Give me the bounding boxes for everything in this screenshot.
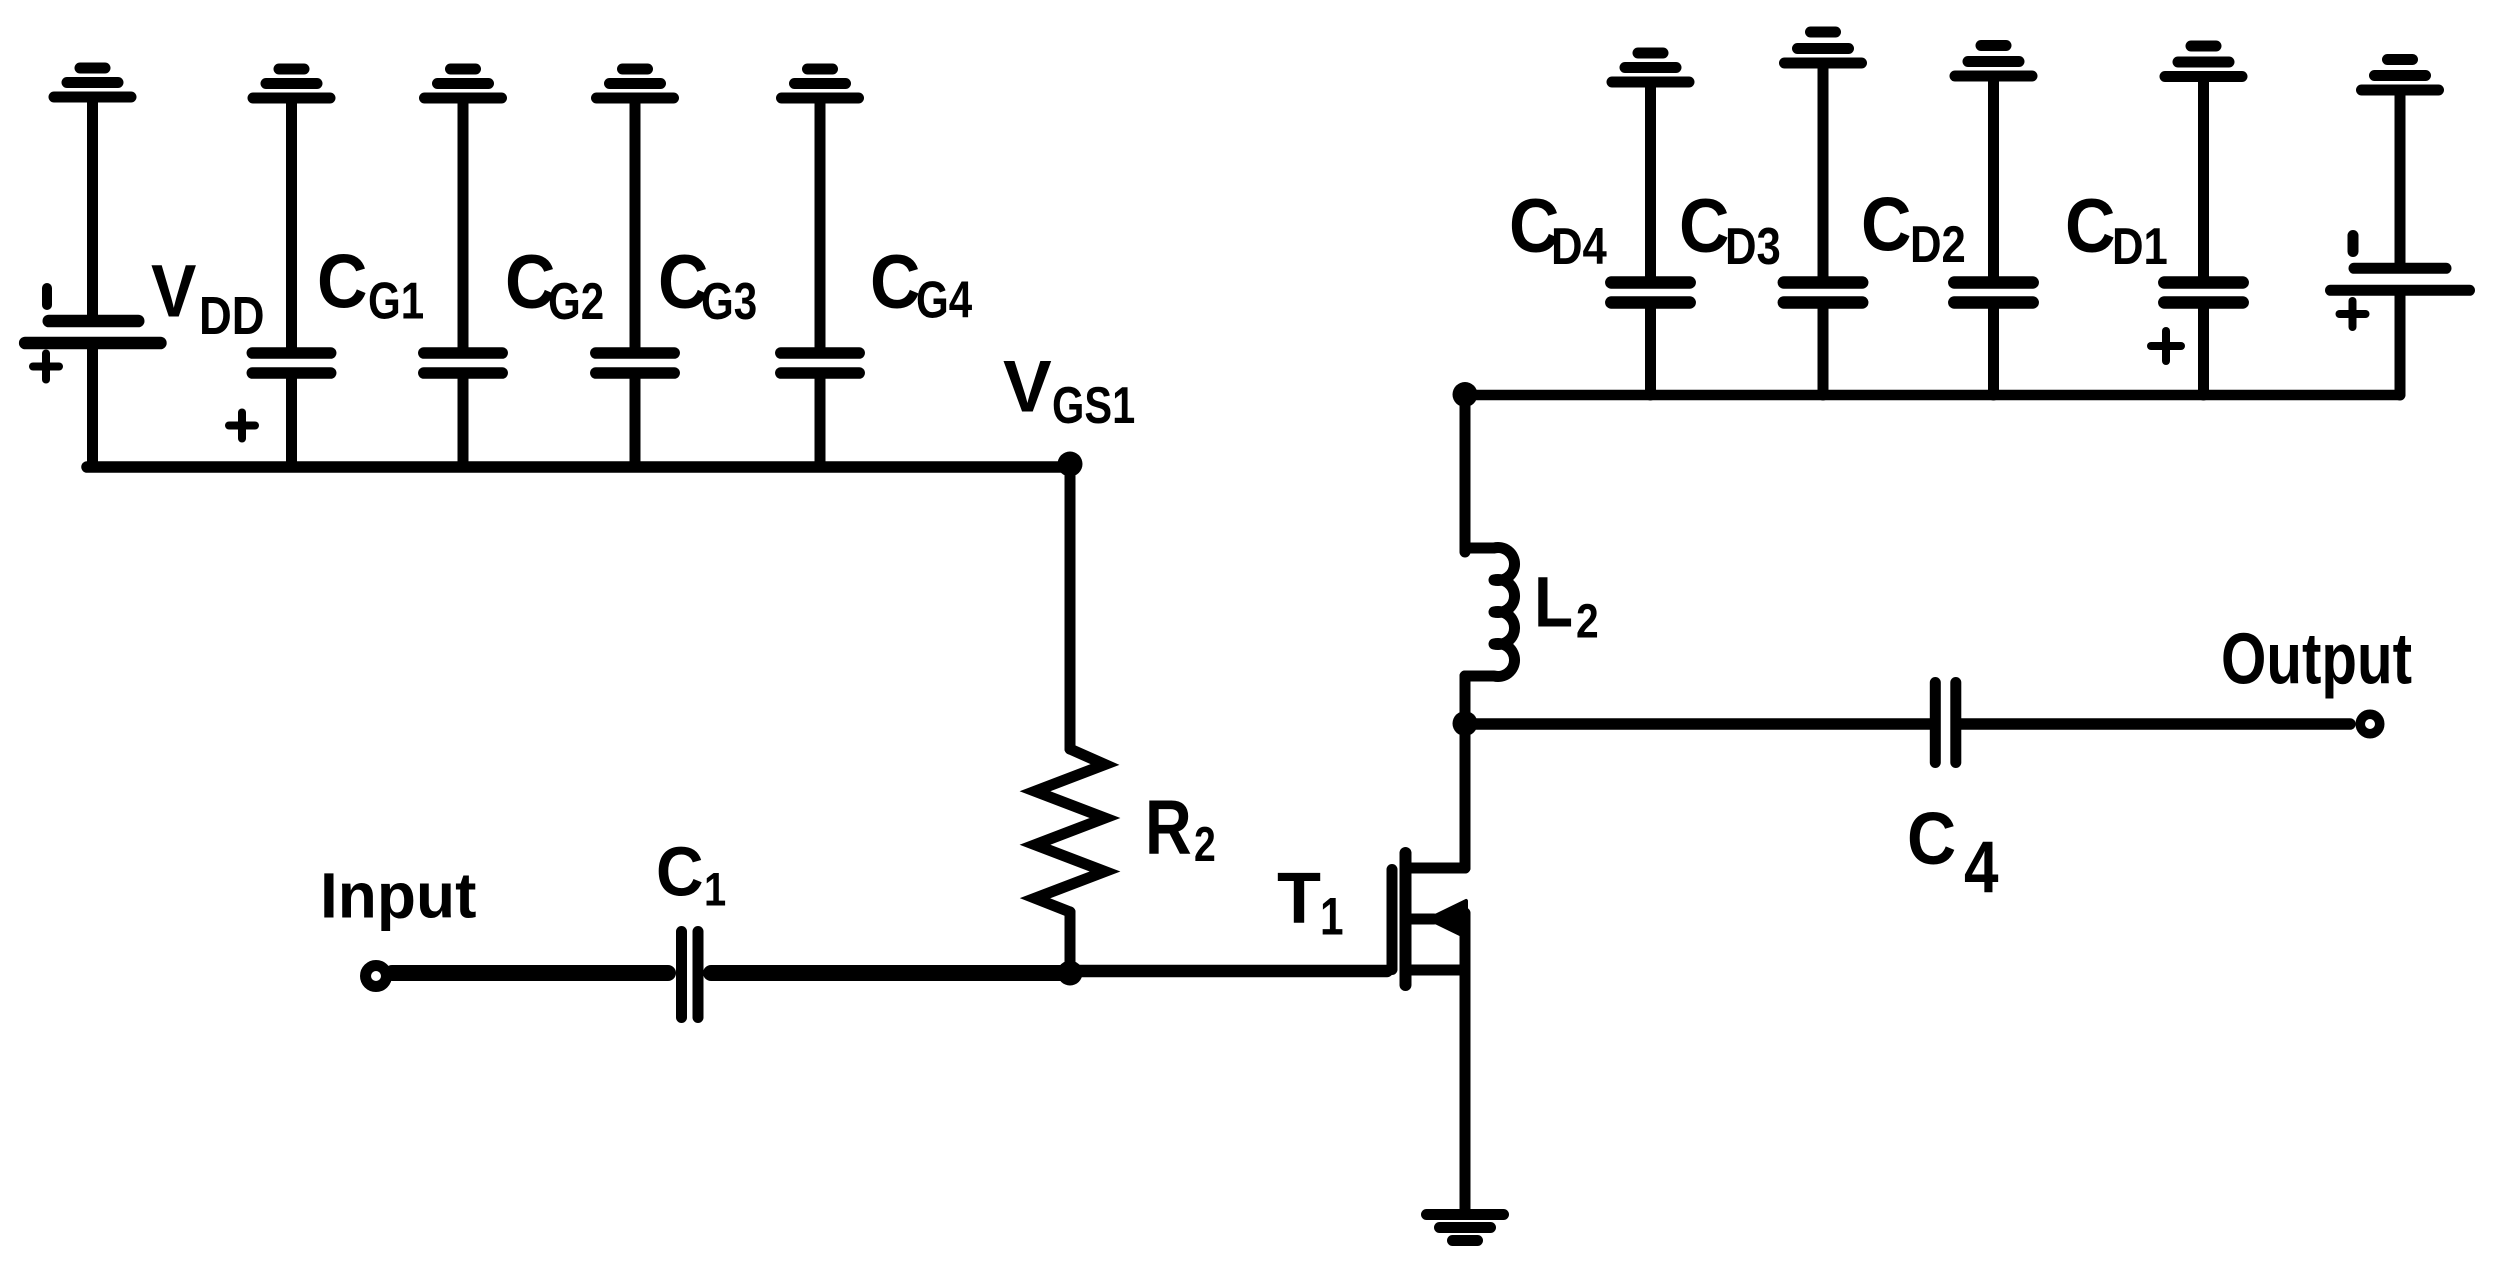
label CD3: [1679, 184, 1781, 276]
wire: node VGS1 down to R2: [1065, 466, 1076, 749]
label R2: [1145, 785, 1216, 872]
capacitor CD4: [1611, 85, 1689, 395]
capacitor C4: [1935, 683, 1956, 763]
drain bias rail: [1465, 390, 2400, 401]
svg-text:C: C: [1907, 798, 1956, 880]
label Input: [320, 860, 476, 932]
plus sign (right battery polarity): [2340, 301, 2366, 327]
svg-text:4: 4: [1964, 828, 1999, 909]
svg-text:D4: D4: [1551, 219, 1607, 276]
plus sign (CG1 polarity): [229, 413, 255, 439]
label C1: [656, 834, 726, 917]
wire: ground to right battery: [2395, 93, 2406, 263]
ground (above right battery): [2362, 60, 2439, 91]
label VGS1: [1003, 347, 1135, 435]
plus sign (VDD battery polarity): [33, 354, 59, 380]
ground (above CD3): [1785, 32, 1862, 63]
svg-text:G4: G4: [916, 271, 973, 329]
ground (above CG3): [597, 69, 674, 98]
label CG4: [870, 240, 973, 329]
svg-text:R: R: [1145, 785, 1192, 871]
ground (above VDD battery): [54, 68, 131, 97]
label CG3: [658, 240, 757, 331]
svg-text:C: C: [1679, 184, 1729, 268]
ground (above CD4): [1612, 53, 1689, 82]
resistor R2: [1035, 749, 1105, 912]
ground (above CG4): [782, 69, 859, 98]
svg-text:D3: D3: [1725, 219, 1781, 276]
wire: right battery to drain rail: [2395, 296, 2406, 395]
wire: L2 to drain node: [1460, 676, 1471, 724]
node (drain / output junction): [1453, 711, 1478, 736]
battery (right, drain supply): [2331, 236, 2470, 291]
capacitor CD1: [2164, 80, 2242, 395]
svg-text:G1: G1: [368, 272, 424, 330]
wire: C4 to Output terminal: [1961, 718, 2350, 730]
capacitor C1: [682, 932, 699, 1018]
svg-text:G3: G3: [701, 273, 757, 331]
svg-text:2: 2: [1576, 595, 1599, 648]
ground (T1 source): [1427, 1215, 1504, 1241]
wire: R2 to input line junction: [1065, 912, 1076, 973]
wire: VDD battery to gate bias rail: [87, 349, 98, 466]
svg-text:V: V: [1003, 347, 1052, 428]
svg-text:D2: D2: [1910, 217, 1966, 274]
ground (above CG2): [425, 69, 502, 98]
label T1: [1277, 859, 1344, 947]
label Output: [2221, 619, 2412, 699]
label CG2: [505, 240, 604, 331]
svg-text:Output: Output: [2221, 619, 2412, 699]
node (gate junction): [1058, 961, 1083, 986]
label CD4: [1509, 184, 1607, 276]
svg-text:C: C: [2065, 184, 2115, 268]
svg-text:C: C: [317, 240, 367, 324]
label VDD: [151, 251, 265, 346]
svg-text:G2: G2: [548, 273, 604, 331]
gate bias rail (net VGS1): [87, 461, 1070, 473]
wire: gate junction to T1 gate: [1070, 965, 1387, 978]
capacitor CG4: [781, 101, 859, 466]
svg-text:2: 2: [1194, 818, 1216, 872]
wire: ground to VDD battery top plate: [87, 100, 98, 317]
svg-text:C: C: [870, 240, 920, 324]
ground (above CD2): [1955, 46, 2032, 77]
Output terminal: [2360, 714, 2380, 734]
Input terminal: [366, 966, 387, 987]
node (drain rail left end): [1453, 382, 1478, 407]
wire: drain rail node down to L2: [1460, 395, 1471, 552]
svg-text:L: L: [1534, 563, 1573, 642]
svg-text:C: C: [656, 834, 704, 911]
label L2: [1534, 563, 1599, 648]
svg-text:D1: D1: [2112, 219, 2168, 276]
battery VDD: [25, 288, 160, 343]
label CG1: [317, 240, 424, 331]
inductor L2: [1465, 548, 1515, 677]
capacitor CG2: [424, 101, 502, 466]
plus sign (CD1 polarity): [2151, 331, 2181, 361]
node VGS1: [1058, 452, 1083, 477]
wire: drain node to C4: [1465, 718, 1930, 730]
svg-text:T: T: [1277, 859, 1321, 939]
ground (above CG1): [253, 69, 330, 98]
capacitor CG3: [596, 101, 674, 466]
svg-text:1: 1: [1320, 888, 1344, 947]
label CD1: [2065, 184, 2168, 276]
svg-text:C: C: [1861, 183, 1911, 267]
wire: C1 to T1 gate: [711, 965, 1070, 981]
svg-text:GS1: GS1: [1052, 376, 1135, 435]
svg-text:V: V: [151, 251, 196, 333]
capacitor CG1: [252, 101, 330, 466]
label CD2: [1861, 183, 1966, 274]
ground (above CD1): [2165, 46, 2242, 77]
svg-text:DD: DD: [199, 285, 265, 346]
wire: Input terminal to C1: [392, 965, 668, 981]
svg-text:Input: Input: [320, 860, 476, 932]
transistor T1 (NMOS): [1392, 724, 1466, 1210]
label C4: [1907, 798, 1999, 908]
capacitor CD2: [1954, 79, 2032, 395]
svg-text:1: 1: [704, 865, 726, 917]
capacitor CD3: [1784, 66, 1862, 395]
